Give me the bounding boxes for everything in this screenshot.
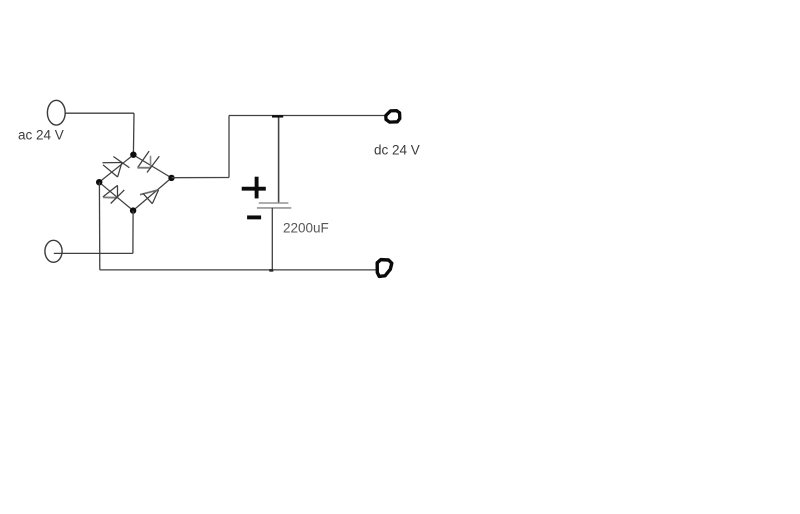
wire bridge edge top-left: [99, 155, 133, 182]
capacitor C1 plus sign: [242, 177, 266, 199]
junction tick on top rail: [272, 115, 283, 117]
wire bridge edge bottom-left: [99, 182, 133, 210]
wire bridge edge top-right: [133, 155, 171, 178]
wire capacitor top lead: [278, 117, 280, 203]
wire bottom ac terminal to bridge bottom: [54, 252, 133, 254]
wire corner down to bridge top node: [132, 113, 135, 155]
junction tick on bottom rail: [269, 269, 273, 272]
wire bridge left node down: [98, 182, 100, 270]
node bridge bottom: [130, 207, 136, 213]
svg-text:ac 24 V: ac 24 V: [18, 128, 64, 143]
capacitor C1 bottom plate: [257, 207, 291, 209]
wire bottom rail to dc minus terminal: [100, 269, 377, 271]
wire capacitor bottom lead: [271, 208, 273, 270]
capacitor C1 minus sign: [247, 215, 261, 219]
wire bridge edge bottom-right: [133, 178, 171, 211]
diode D4 bottom-right: [140, 190, 159, 204]
svg-text:2200uF: 2200uF: [283, 221, 329, 236]
diode D3 bottom-left: [103, 185, 125, 203]
svg-text:dc 24 V: dc 24 V: [374, 143, 420, 158]
wire bridge right node to riser corner: [172, 177, 230, 179]
wire top rail to dc plus terminal: [229, 115, 386, 117]
wire top ac to corner: [65, 112, 134, 114]
wire riser up: [228, 116, 230, 178]
wire up to bridge bottom node: [132, 211, 134, 254]
diode D2 top-right: [137, 151, 159, 172]
dc plus terminal: [386, 111, 400, 123]
ac source terminal top: [47, 100, 65, 125]
capacitor C1 top plate: [259, 202, 289, 204]
diode D1 top-left: [103, 157, 130, 178]
ac source terminal bottom: [45, 240, 62, 262]
node bridge top: [130, 152, 136, 158]
node bridge right: [168, 175, 174, 181]
node bridge left: [96, 179, 102, 185]
dc minus terminal: [377, 260, 392, 277]
